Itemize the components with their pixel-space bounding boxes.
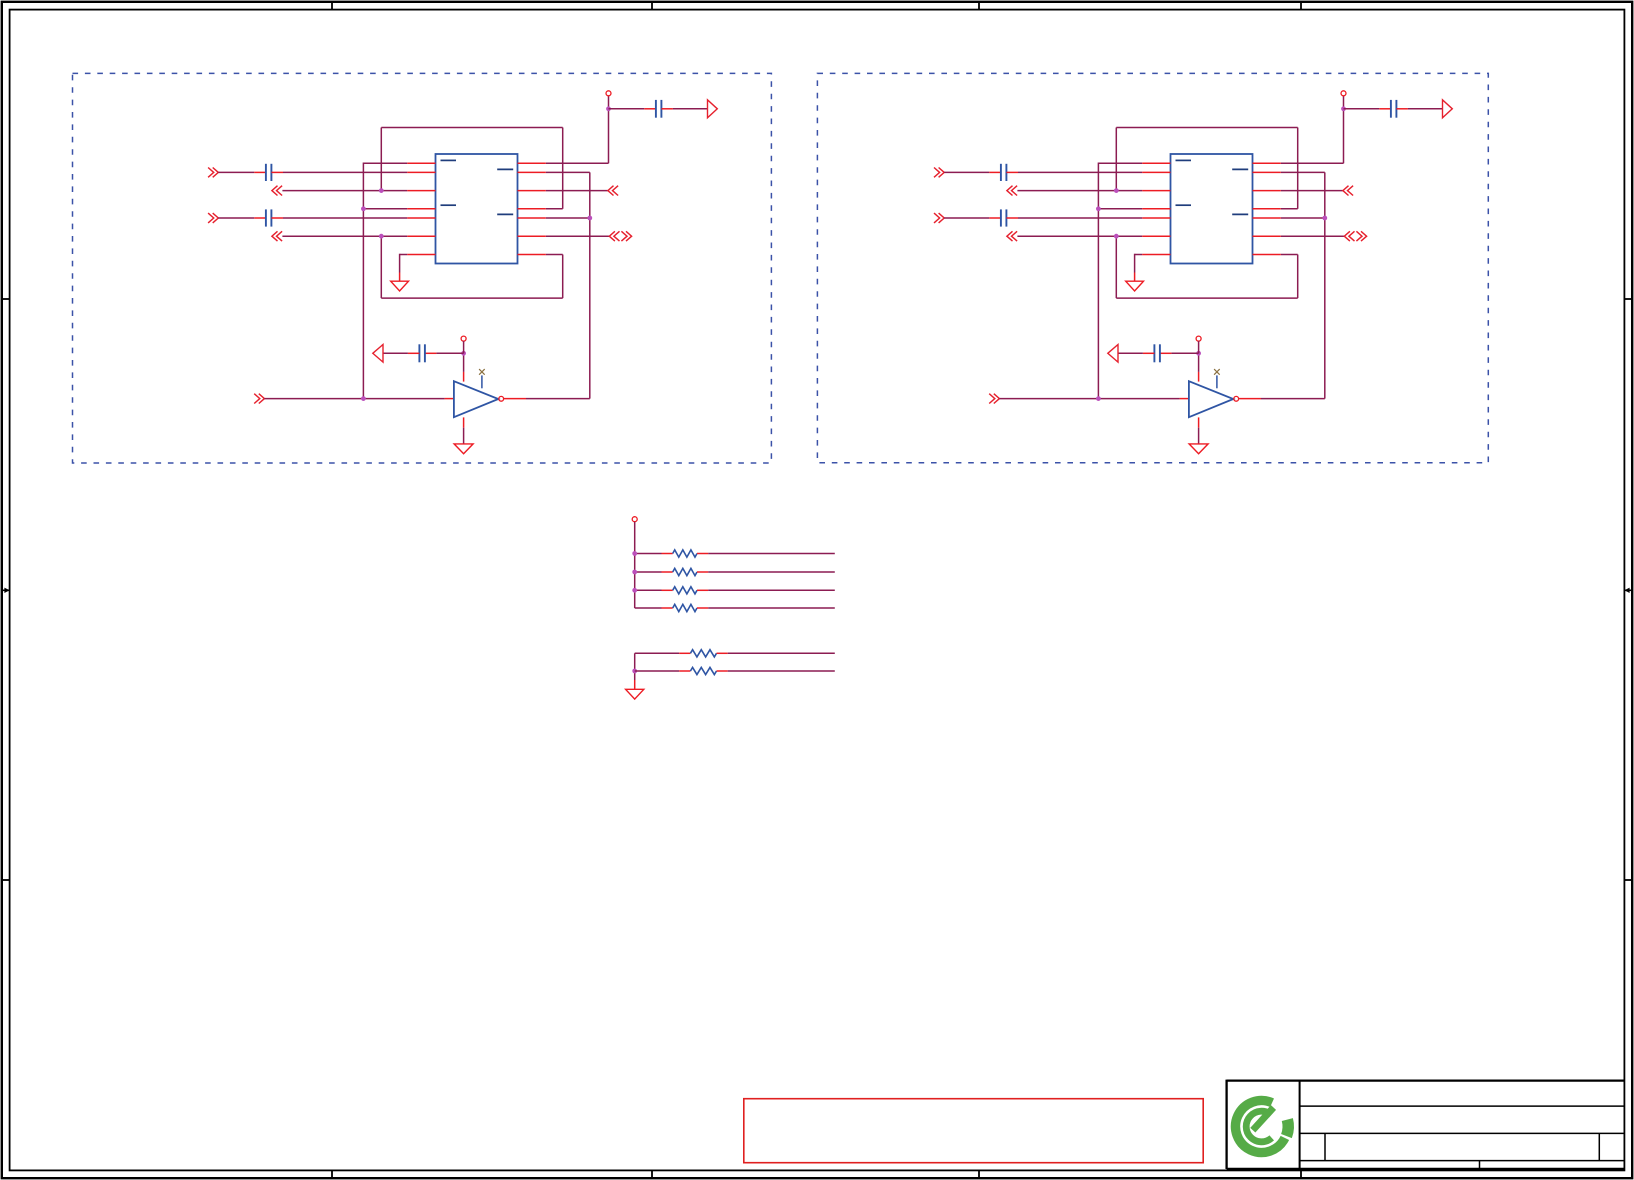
IC UA pin-name dash mid-left (441, 204, 457, 206)
resistor R2 left lead (662, 571, 673, 573)
wire C3B to output port (1408, 108, 1443, 110)
wire to buffer ground (1198, 428, 1200, 444)
ground symbol below UA (391, 281, 409, 291)
capacitor C1B (1001, 164, 1007, 181)
open terminal buffer power A (461, 336, 466, 341)
port VOUTA (output arrow) (708, 100, 718, 118)
resistor R4 right lead (697, 607, 708, 609)
wire to buffer ground (463, 428, 465, 444)
wire R1 to right (708, 553, 835, 555)
wire C3A to output port (673, 108, 708, 110)
wire buffer input (999, 398, 1179, 400)
wire row1 to UA pin 1 (363, 162, 407, 164)
wire bus to R1 (635, 553, 662, 555)
wire loop bottom horizontal (1116, 297, 1297, 299)
capacitor C2A (266, 209, 272, 226)
wire bus to R6 (635, 670, 680, 672)
wire right row6 to port (546, 235, 610, 237)
wire terminal to junction (463, 341, 465, 353)
no-connect X B (1214, 369, 1220, 375)
buffer power pin stub (1198, 372, 1200, 382)
capacitor C3B left lead (1379, 108, 1391, 110)
IC UB right pin stubs (1253, 163, 1281, 254)
border zone tick top x=1301 (1300, 2, 1302, 10)
open terminal buffer power B (1196, 336, 1201, 341)
IC UB pin-name dash mid-left (1176, 204, 1192, 206)
wire right pin row4 to loop vertical (1281, 208, 1298, 210)
red annotation rectangle (744, 1099, 1203, 1163)
capacitor C3A left lead (644, 108, 656, 110)
wire right row5 stub to vertical (1281, 217, 1325, 219)
IC UA right pin stubs (518, 163, 546, 254)
title block row line 2 (1300, 1132, 1625, 1134)
capacitor C4A right lead (425, 352, 437, 354)
wire IN2B port to cap (944, 217, 989, 219)
wire bus to R4 (635, 607, 662, 609)
resistor R1 right lead (697, 553, 708, 555)
wire buffer-out vertical (589, 172, 591, 398)
wire loop vertical up to row6 (380, 236, 382, 298)
capacitor C3B right lead (1396, 108, 1408, 110)
junction bus y=590.3 (632, 588, 637, 593)
wire loop vertical down to row3 (380, 128, 382, 191)
port VDDB (left arrow) (1108, 345, 1118, 363)
wire vertical row1 to buffer input (1097, 163, 1099, 399)
buffer input pin stub (445, 398, 454, 400)
wire R6 to right (728, 670, 835, 672)
company logo outer ring arc (1236, 1101, 1285, 1153)
capacitor C4A left lead (408, 352, 420, 354)
port OUT1A (<<) (272, 186, 282, 196)
IC UB pin-name dash top-left (1176, 159, 1192, 161)
wire R2 to right (708, 571, 835, 573)
capacitor C2A right lead (271, 217, 283, 219)
IC UA body (436, 154, 518, 264)
port BINB (>>) (989, 394, 999, 404)
title block logo cell divider (1299, 1081, 1301, 1169)
capacitor C1A right lead (271, 171, 283, 173)
wire OUT1B to UB pin 3 (1017, 190, 1142, 192)
wire R4 to right (708, 607, 835, 609)
wire C2B to UB pin 5 (1018, 217, 1142, 219)
junction row4/vertical B (1096, 206, 1101, 211)
port OUT2A (<<) (272, 231, 282, 241)
wire UB pin 7 to ground (1135, 254, 1143, 256)
resistor R1 left lead (662, 553, 673, 555)
ground symbol resistor network (626, 689, 644, 699)
capacitor C2B left lead (989, 217, 1001, 219)
wire loop vertical right up (1297, 128, 1299, 209)
resistor R2 right lead (697, 571, 708, 573)
junction buffer input A (361, 396, 366, 401)
IC UA left pin stubs (407, 163, 435, 254)
resistor R4 left lead (662, 607, 673, 609)
border zone tick bottom x=332 (331, 1170, 333, 1178)
buffer NC pin (1216, 375, 1218, 388)
title block cell divider a (1324, 1133, 1326, 1160)
open terminal resistor network (632, 517, 637, 522)
resistor R5 left lead (679, 652, 690, 654)
wire terminal to junction (1198, 341, 1200, 353)
wire loop vertical right down (562, 255, 564, 299)
wire loop vertical right up (562, 128, 564, 209)
title block row line 3 (1300, 1160, 1625, 1162)
border zone tick bottom x=1301 (1300, 1170, 1302, 1178)
wire loop vertical down to row3 (1115, 128, 1117, 191)
ground pin stub A (399, 273, 401, 282)
junction row3/loop B (1114, 188, 1119, 193)
ground symbol below UB (1126, 281, 1144, 291)
wire buffer input (264, 398, 444, 400)
wire R5 to right (728, 652, 835, 654)
buffer output bubble (499, 396, 504, 401)
border zone tick bottom x=652 (651, 1170, 653, 1178)
wire OUT1A to UA pin 3 (282, 190, 407, 192)
port VDDA (left arrow) (373, 345, 383, 363)
port IN1B (>>) (934, 168, 944, 178)
border zone tick top x=979 (978, 2, 980, 10)
company logo tail wedge (1281, 1118, 1294, 1138)
IC UB pin-name dash mid-right (1232, 213, 1248, 215)
junction row6/loop B (1114, 234, 1119, 239)
capacitor C1B left lead (989, 171, 1001, 173)
junction bus y=553.5 (632, 551, 637, 556)
wire terminal down bus (634, 522, 636, 608)
wire C2A to UA pin 5 (283, 217, 407, 219)
wire buffer output to vertical (1261, 398, 1325, 400)
wire junction to cap C3B (1344, 108, 1380, 110)
wire right row6 to port (1281, 235, 1345, 237)
wire row4 from vertical to UB pin 4 (1098, 208, 1142, 210)
wire bus to R2 (635, 571, 662, 573)
junction row5/buffer-out B (1322, 216, 1327, 221)
title block row line 1 (1300, 1105, 1625, 1107)
capacitor C1A left lead (254, 171, 266, 173)
buffer input pin stub (1180, 398, 1189, 400)
port IN2A (>>) (208, 213, 218, 223)
wire C1A to UA pin 2 (283, 171, 407, 173)
no-connect X A (479, 369, 485, 375)
wire R3 to right (708, 589, 835, 591)
resistor R6 right lead (717, 670, 728, 672)
wire right row1 to terminal vertical (546, 162, 609, 164)
wire loop top horizontal (381, 127, 562, 129)
ground symbol below buffer B (1189, 444, 1208, 454)
wire junction to cap C3A (609, 108, 645, 110)
port BIOB (<< part) (1344, 231, 1354, 241)
junction row4/vertical A (361, 206, 366, 211)
capacitor C3A right lead (661, 108, 673, 110)
port VOUTB (output arrow) (1443, 100, 1453, 118)
capacitor C2B (1001, 209, 1007, 226)
wire terminal vertical (608, 96, 610, 163)
border centering arrow left (2, 588, 10, 593)
resistor R3 right lead (697, 589, 708, 591)
IC UA pin-name dash top-right (497, 168, 513, 170)
wire bus to R3 (635, 589, 662, 591)
junction terminal/cap B (1341, 106, 1346, 111)
ground pin stub B (1134, 273, 1136, 282)
IC UA pin-name dash mid-right (497, 213, 513, 215)
wire vertical row1 to buffer input (362, 163, 364, 399)
IC UB body (1171, 154, 1253, 264)
border zone tick top x=332 (331, 2, 333, 10)
port IN2B (>>) (934, 213, 944, 223)
port FB1A (<<) (608, 186, 618, 196)
wire loop bottom horizontal (381, 297, 562, 299)
port BIOB (>> part) (1356, 231, 1366, 241)
channel A isolation block dashed outline (73, 73, 772, 463)
buffer output bubble (1234, 396, 1239, 401)
buffer output pin stub (504, 398, 526, 400)
capacitor C4B (1154, 344, 1160, 362)
wire OUT2B to UB pin 6 (1017, 235, 1142, 237)
border zone tick left y=299 (2, 298, 10, 300)
open terminal A top-right (606, 91, 611, 96)
border zone tick left y=880 (2, 879, 10, 881)
wire junction to cap C4A (436, 352, 463, 354)
ground pin stub (resistor network) (634, 680, 636, 689)
buffer output pin stub (1239, 398, 1261, 400)
border zone tick right y=880 (1624, 879, 1632, 881)
port BINA (>>) (254, 394, 264, 404)
buffer NC pin (481, 375, 483, 388)
wire terminal vertical (1343, 96, 1345, 163)
resistor R3 (673, 587, 697, 594)
op-amp buffer UAB triangle (454, 381, 498, 417)
wire cap to port (1118, 352, 1143, 354)
title block bottom strip divider (1479, 1161, 1481, 1169)
port BIOA (>> part) (621, 231, 631, 241)
op-amp buffer UBB triangle (1189, 381, 1233, 417)
junction bus y=572 (632, 570, 637, 575)
resistor R6 left lead (679, 670, 690, 672)
buffer ground pin stub (463, 417, 465, 427)
border centering arrow right (1624, 588, 1632, 593)
port OUT2B (<<) (1007, 231, 1017, 241)
company logo inner bowl arc (1246, 1111, 1272, 1142)
capacitor C3A (656, 100, 662, 118)
capacitor C4A (419, 344, 425, 362)
buffer power pin stub (463, 372, 465, 382)
ground symbol below buffer A (454, 444, 473, 454)
capacitor C1B right lead (1006, 171, 1018, 173)
wire OUT2A to UA pin 6 (282, 235, 407, 237)
capacitor C3B (1391, 100, 1397, 118)
resistor R3 left lead (662, 589, 673, 591)
capacitor C2B right lead (1006, 217, 1018, 219)
border zone tick right y=299 (1624, 298, 1632, 300)
resistor R1 (673, 550, 697, 557)
port BIOA (<< part) (609, 231, 619, 241)
wire right row3 to port (546, 190, 608, 192)
wire UA pin 7 to ground (400, 254, 408, 256)
wire cap to port (383, 352, 408, 354)
junction row6/loop A (379, 234, 384, 239)
wire right row2 to buffer-out vertical (1281, 171, 1325, 173)
port IN1A (>>) (208, 168, 218, 178)
wire loop vertical right down (1297, 255, 1299, 299)
wire power pin up (1198, 353, 1200, 372)
capacitor C4B left lead (1143, 352, 1155, 354)
junction lower bus (632, 669, 637, 674)
IC UB left pin stubs (1142, 163, 1170, 254)
company logo diagonal bar (1253, 1108, 1274, 1131)
wire right row3 to port (1281, 190, 1343, 192)
junction row5/buffer-out A (587, 216, 592, 221)
wire bus to R5 (635, 652, 680, 654)
wire buffer-out vertical (1324, 172, 1326, 398)
wire IN1B port to cap (944, 171, 989, 173)
capacitor C1A (266, 164, 272, 181)
wire right row1 to terminal vertical (1281, 162, 1344, 164)
open terminal B top-right (1341, 91, 1346, 96)
IC UA pin-name dash top-left (441, 159, 457, 161)
border zone tick top x=652 (651, 2, 653, 10)
wire IN1A port to cap (218, 171, 254, 173)
wire right pin row7 to loop vertical (546, 254, 563, 256)
wire junction to cap C4B (1171, 352, 1198, 354)
IC UB pin-name dash top-right (1232, 168, 1248, 170)
title block cell divider b (1598, 1133, 1600, 1160)
wire power pin up (463, 353, 465, 372)
junction terminal/cap A (606, 106, 611, 111)
wire loop top horizontal (1116, 127, 1297, 129)
wire right row2 to buffer-out vertical (546, 171, 590, 173)
wire loop vertical up to row6 (1115, 236, 1117, 298)
capacitor C2A left lead (254, 217, 266, 219)
port OUT1B (<<) (1007, 186, 1017, 196)
wire right pin row7 to loop vertical (1281, 254, 1298, 256)
resistor R5 right lead (717, 652, 728, 654)
wire C1B to UB pin 2 (1018, 171, 1142, 173)
wire IN2A port to cap (218, 217, 254, 219)
port FB1B (<<) (1343, 186, 1353, 196)
resistor R2 (673, 568, 697, 575)
wire buffer output to vertical (526, 398, 590, 400)
junction row3/loop A (379, 188, 384, 193)
wire gnd bus vertical (lower group) (634, 653, 636, 680)
resistor R6 (690, 667, 716, 674)
resistor R4 (673, 604, 697, 611)
capacitor C4B right lead (1160, 352, 1172, 354)
junction buffer power A (461, 351, 466, 356)
wire row1 to UB pin 1 (1098, 162, 1142, 164)
junction buffer power B (1196, 351, 1201, 356)
wire row4 from vertical to UA pin 4 (363, 208, 407, 210)
title block outline (1227, 1080, 1625, 1169)
border zone tick bottom x=979 (978, 1170, 980, 1178)
wire right pin row4 to loop vertical (546, 208, 563, 210)
wire right row5 stub to vertical (546, 217, 590, 219)
buffer ground pin stub (1198, 417, 1200, 427)
resistor R5 (690, 650, 716, 657)
channel B isolation block dashed outline (817, 73, 1488, 462)
junction buffer input B (1096, 396, 1101, 401)
